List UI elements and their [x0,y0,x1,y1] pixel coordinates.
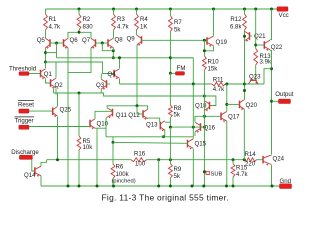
resistor R3 4.7k [112,14,130,31]
transistor Q10 [90,119,109,130]
wire Q1 emitter to Q2 base [46,79,51,83]
node discharge rail Q25 tap [56,158,59,161]
svg-text:Threshold: Threshold [9,65,36,72]
node Q22 base junction [254,44,257,47]
node Q20 emitter junction [232,158,235,161]
node trigger col tap [192,126,195,129]
svg-text:Q14: Q14 [24,172,36,179]
node trigger control tap [169,126,172,129]
node bottom rail junction x192 [191,185,194,188]
pin Vcc [277,7,289,19]
node SUB substrate marker [206,171,223,177]
transistor Q22 [264,40,283,51]
node top rail junction x113.5 [112,8,115,11]
wire Q15 emitter down [192,149,194,186]
transistor Q20 [240,100,258,111]
pin Reset [18,100,34,113]
svg-text:R12: R12 [230,16,242,23]
wire Q25 collector up [57,93,59,106]
svg-text:R9: R9 [174,166,182,173]
svg-text:1K: 1K [140,24,147,31]
node Q4 collector junction [118,56,121,59]
wire R10 bottom col [203,70,205,96]
resistor R4 1K [135,14,149,31]
svg-text:Q25: Q25 [60,107,72,114]
wire Q19 base col top [203,40,205,56]
transistor Q9 [127,35,142,46]
wire R12 top lead [244,9,246,14]
svg-text:830: 830 [83,24,94,31]
wire Q9 base to Q19 base [142,39,205,41]
pin Trigger [15,117,35,129]
svg-text:Q4: Q4 [108,71,117,78]
wire Q16 base stub [201,126,205,128]
wire R14 to Q24 base [257,159,263,161]
resistor R1 4.7k [44,14,61,31]
wire Vcc top rail [46,8,278,10]
wire Trigger lead to Q10 [29,126,90,128]
wire control col low [169,127,171,163]
node SUB junction [203,170,206,173]
svg-text:Q6: Q6 [70,37,79,44]
wire comparator bus A [120,83,212,85]
node jog junction A [112,49,115,52]
node Output junction [270,100,273,103]
transistor Q16 [195,122,216,133]
transistor Q12 [128,109,147,120]
wire Q2 collector up [46,62,57,78]
transistor Q2 [51,78,64,89]
transistor Q17 [221,112,240,123]
wire Q17 collector up [226,84,228,112]
node Q19 base junction [203,39,206,42]
transistor Q4 [108,69,120,80]
node Q13 emitter junction [162,135,165,138]
svg-text:15k: 15k [208,66,219,73]
svg-text:4.7k: 4.7k [49,24,61,31]
wire R2 top lead [78,9,80,14]
wire Q7Q8 base jog [102,43,113,58]
wire Q15 base line [113,141,188,144]
svg-text:100: 100 [135,161,146,168]
svg-text:5k: 5k [174,111,181,118]
svg-text:R6: R6 [116,163,124,170]
wire bus corner down to comparator bus [192,58,194,84]
transistor Q19 [207,36,228,47]
svg-text:Q11: Q11 [116,112,128,119]
wire R15 top lead [232,160,234,164]
wire Q3 collector up [100,74,102,80]
svg-text:R10: R10 [208,59,220,66]
wire Q18 base loop [204,96,216,106]
wire Q10 emitter to Q11 riser [95,127,106,129]
node mirror top junction [136,104,139,107]
transistor Q15 [188,139,207,150]
wire control column upper [169,73,171,105]
svg-text:Q16: Q16 [204,125,216,132]
svg-text:Q8: Q8 [115,36,124,43]
svg-text:Q3: Q3 [96,82,105,89]
wire R6 column upper [112,137,114,143]
node Q7 Q8 base junction [101,42,104,45]
wire control column lower [169,118,171,128]
svg-text:R4: R4 [140,16,148,23]
wire Threshold to Q1 base [29,73,41,75]
wire R10 col down [203,96,205,186]
wire Q8 emitter join [112,48,114,51]
wire R4 top lead [136,9,138,14]
wire Q14 collector jog [41,160,47,167]
node top rail junction x170.4 [169,8,172,11]
pin Discharge [11,149,39,160]
node bottom rail junction x170.4 [169,185,172,188]
node trigger end junction [203,126,206,129]
wire Discharge to Q14 base [32,159,35,171]
wire ground col [96,128,98,186]
node bus A left col junction [192,83,195,86]
resistor R2 830 [77,14,93,31]
wire Q10 collector to Q11 base [95,111,113,119]
wire Q2 emitter down [55,88,57,94]
wire Q5 diode tie [46,52,57,54]
node R11 right junction [225,83,228,86]
svg-text:Q20: Q20 [246,102,258,109]
wire Q23 riser to output [264,69,272,84]
svg-text:Q23: Q23 [249,73,261,80]
svg-text:Discharge: Discharge [11,149,39,156]
svg-text:Trigger: Trigger [15,118,34,125]
transistor Q6 [64,37,79,49]
wire base drop to bus [56,43,58,58]
node top rail junction x255.7 [254,8,257,11]
wire col to control line [192,127,194,137]
svg-text:Q10: Q10 [97,120,109,127]
resistor R14 220 [244,151,256,167]
node top rail junction x213.5 [212,8,215,11]
resistor R15 4.7k [231,164,248,178]
svg-text:Q12: Q12 [128,112,140,119]
svg-text:Fig. 11-3 The original 555 ti: Fig. 11-3 The original 555 timer. [102,193,229,203]
wire Q25 emitter down [57,117,59,160]
svg-text:4.7k: 4.7k [213,86,225,93]
svg-text:Q9: Q9 [127,35,136,42]
resistor R7 5k [169,16,183,34]
wire trigger mirror top [107,106,148,109]
node bottom rail junction x113.5 [112,185,115,188]
node R12 col busA [243,83,246,86]
transistor Q14 [24,166,41,179]
svg-text:Q1: Q1 [44,71,53,78]
resistor R12 6.8k [230,14,246,31]
svg-text:Q5: Q5 [37,37,46,44]
transistor Q24 [263,155,285,166]
svg-text:R14: R14 [245,151,257,158]
wire R6 top lead [112,142,114,164]
transistor Q21 [245,31,267,42]
wire R3 bottom lead [113,30,115,38]
wire Q22 base col [255,9,257,49]
pin Output [275,91,294,104]
svg-text:Q18: Q18 [195,102,207,109]
node output col diode tap [270,67,273,70]
transistor Q23 [248,73,261,84]
svg-text:R16: R16 [134,151,146,158]
wire R11 right [226,83,245,85]
svg-text:R11: R11 [213,76,224,83]
wire Q19 collector loop [204,46,213,51]
node R9 top junction [169,158,172,161]
node bottom rail junction x233 [232,185,235,188]
transistor Q13 [146,121,165,132]
wire Q4 emitter down [119,79,121,84]
svg-text:R3: R3 [117,16,125,23]
transistor Q8 [108,36,123,49]
wire Q22 emitter up [270,9,272,40]
node bottom rail junction x203.8 [202,185,205,188]
node top rail junction x271.5 [270,8,273,11]
wire Q7 collector drop [68,48,91,73]
wire Q12 emitter to Q13 base [148,118,161,122]
node bottom rail junction x97 [96,185,99,188]
pin FM [175,65,185,75]
svg-text:R1: R1 [49,16,57,23]
wire drop to ground [158,160,160,186]
wire Q23 bottom line [245,83,265,85]
node bottom rail junction x68 [67,185,70,188]
wire Q5-Q6 base tie [50,42,64,44]
svg-text:6.8k: 6.8k [230,24,242,31]
resistor R5 10k [77,136,93,151]
wire R1 top lead [45,9,47,14]
wire Q13 emitter drop [164,129,166,137]
resistor R10 15k [203,56,220,73]
svg-text:SUB: SUB [211,172,223,178]
svg-text:R2: R2 [83,16,91,23]
transistor Q7 [82,37,96,49]
wire Q7-Q8 base tie [96,42,109,44]
wire Q17 emitter down [226,121,228,186]
wire Q19 base lead [204,39,207,42]
svg-text:4.7k: 4.7k [236,171,248,178]
wire Q17 base line [204,115,221,117]
wire Reset to Q25 [29,110,53,112]
node rail drop junction [157,158,160,161]
node base bus R7 tap [169,56,172,59]
wire R1 bottom lead [45,30,47,38]
wire Q3 base stub [107,83,111,85]
wire Q12 base lead [137,106,143,114]
wire Q16 collector up [195,116,204,121]
transistor Q18 [195,101,210,112]
wire R5 top col [78,93,80,136]
node jog junction B [112,56,115,59]
transistor Q25 [53,107,72,118]
node FM junction [169,72,172,75]
node bottom rail junction x79 [78,185,81,188]
svg-text:3.9k: 3.9k [260,58,272,65]
transistor Q11 [107,108,127,119]
node Q20 base junction [225,103,228,106]
wire Q1 collector up [45,62,47,68]
wire FM lead [170,72,175,74]
svg-text:Q19: Q19 [216,39,228,46]
resistor R6 100k [111,163,130,178]
svg-text:5k: 5k [174,173,181,180]
wire base bus [57,57,194,59]
node Q17 base junction [203,115,206,118]
wire R3 top lead [113,9,115,14]
wire Q9 emitter column [136,45,138,106]
resistor R16 100 [131,151,147,168]
svg-text:Q24: Q24 [273,156,285,163]
svg-text:10k: 10k [83,144,94,151]
node R2 bottom junction [78,31,81,34]
svg-text:(pinched): (pinched) [112,178,136,184]
wire Q21 base lead [250,35,253,37]
wire control line [170,126,204,128]
svg-text:Q2: Q2 [55,82,64,89]
wire R13 bottom to Q23 [255,65,257,80]
wire Q3 emitter down [100,89,102,93]
node Q5 Q6 base junction [55,42,58,45]
node bottom rail junction x272 [271,185,274,188]
wire emitter bus B left [54,93,205,96]
node top rail junction x79 [78,8,81,11]
resistor R9 5k [169,164,182,181]
wire R6 bottom lead [112,179,114,187]
svg-text:Q15: Q15 [195,140,207,147]
node bottom rail junction x226.5 [225,185,228,188]
svg-text:Vcc: Vcc [279,12,289,19]
svg-text:5k: 5k [174,27,181,34]
wire bus A left riser [170,57,193,59]
wire Q22 base lead [256,44,265,46]
wire Q11 emitter riser [106,117,107,137]
node R12 col Q20 [243,89,246,92]
wire Q4 base feed [46,62,115,74]
svg-text:Q7: Q7 [82,37,91,44]
wire R9 bottom [169,178,171,186]
wire Q4 collector up [119,58,121,68]
wire comparator out line [106,136,193,138]
svg-text:Output: Output [275,91,294,98]
wire R5 bottom col [78,150,80,186]
transistor Q5 [37,37,50,49]
node top rail junction x136.5 [135,8,138,11]
wire col mid [192,84,194,127]
svg-text:100k: 100k [116,171,130,178]
pin Threshold [9,65,36,75]
wire Q6 emitter to R2 [68,32,91,38]
svg-text:Gnd: Gnd [280,178,292,185]
wire Q20 emitter col down [243,109,245,160]
wire R4 bottom lead [136,30,138,35]
wire Q13 collector tap [165,121,171,123]
wire R12 col [244,30,246,100]
wire R2 bottom lead [78,30,80,32]
wire R7 column to FM node [169,32,171,74]
transistor Q1 [41,69,53,80]
node R12 col Q21 [243,35,246,38]
node bus B R5 tap [78,92,81,95]
wire Output lead [272,100,279,102]
wire Q22 collector down output col [270,50,272,154]
node threshold collector junction [44,61,47,64]
wire Q14 emitter to rail [40,176,42,186]
transistor Q3 [96,79,107,90]
wire Q15 collector up [192,137,194,139]
node bottom rail junction x158.7 [157,185,160,188]
wire R7 top lead [169,9,171,16]
wire Q16 emitter stub [194,132,196,136]
wire discharge rail [47,159,131,161]
wire ground bottom rail [41,185,280,187]
resistor R11 4.7k [212,76,226,93]
resistor R8 5k [169,105,182,118]
node top rail junction x244.5 [243,8,246,11]
pin Gnd [280,178,292,189]
svg-text:Q17: Q17 [228,114,240,121]
wire Q2 emitter riser [53,89,55,94]
wire Q6 collector column [67,48,69,186]
wire Q24 emitter down [271,165,273,186]
wire R15 bottom [232,177,234,186]
node R10 top junction [203,49,206,52]
node R14 left junction [243,158,246,161]
resistor R13 3.9k [254,49,272,66]
svg-text:Reset: Reset [18,101,34,108]
svg-text:Q13: Q13 [146,122,158,129]
wire rail mid [147,159,245,161]
wire Q19 emitter up [213,9,215,36]
wire Q5 collector column [45,48,47,62]
wire Q20 base lead [227,103,240,105]
svg-text:R7: R7 [174,19,182,26]
node bus B right junction [203,95,206,98]
svg-text:Q22: Q22 [271,44,283,51]
node R6 top junction [112,141,115,144]
node Q5 diode tie junction [44,51,47,54]
svg-text:FM: FM [177,65,186,72]
svg-text:4.7k: 4.7k [117,24,129,31]
